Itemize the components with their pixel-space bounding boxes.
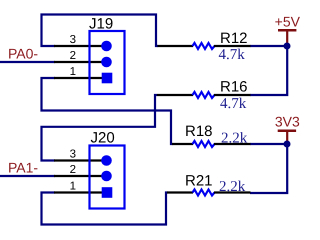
value R12 4.7k — [219, 47, 246, 63]
svg-text:1: 1 — [70, 181, 76, 193]
connector J20 pin 2 contact — [101, 171, 112, 182]
svg-text:+5V: +5V — [275, 14, 301, 30]
label +5V — [275, 14, 301, 30]
value R21 2.2k — [219, 179, 246, 195]
svg-text:R12: R12 — [220, 30, 248, 47]
designator J19 — [89, 16, 113, 33]
resistor R18 body — [193, 141, 215, 147]
pin number J20-1 — [70, 181, 76, 193]
svg-text:2: 2 — [70, 50, 76, 62]
resistor R12 right lead — [214, 45, 251, 47]
svg-text:3: 3 — [70, 149, 76, 161]
connector J19 pin 2 contact — [101, 57, 112, 68]
resistor R18 right lead — [214, 143, 251, 145]
pin number J19-3 — [70, 34, 76, 46]
svg-text:R16: R16 — [220, 79, 248, 96]
wire PA1- net — [0, 175, 55, 177]
svg-text:J20: J20 — [91, 130, 115, 147]
designator R12 — [220, 30, 248, 47]
net label PA0- — [8, 46, 38, 62]
wire PA0- net — [0, 61, 55, 63]
svg-text:1: 1 — [70, 66, 76, 78]
wire R18 right to 3V3 junction — [250, 143, 287, 145]
connector J19 body — [90, 31, 125, 94]
svg-text:R21: R21 — [185, 173, 213, 190]
svg-text:3: 3 — [70, 34, 76, 46]
resistor R18 left lead — [172, 143, 193, 145]
svg-text:4.7k: 4.7k — [220, 96, 247, 112]
power 3V3 stem — [286, 131, 288, 141]
connector J20 body — [90, 146, 125, 209]
label 3V3 — [275, 114, 300, 130]
resistor R16 right lead — [214, 94, 251, 96]
net label PA1- — [8, 160, 38, 176]
wire J19 pin1 loop to R18 — [42, 78, 173, 144]
junction +5V node — [284, 43, 291, 50]
svg-text:4.7k: 4.7k — [219, 47, 246, 63]
wire R12 right to +5V junction — [250, 45, 287, 47]
connector J19 pin 1 contact — [102, 73, 113, 84]
designator J20 — [91, 130, 115, 147]
connector J19 pin 1 lead — [54, 77, 103, 79]
connector J20 pin 3 lead — [54, 159, 103, 161]
designator R18 — [185, 123, 213, 140]
svg-text:PA1-: PA1- — [8, 160, 38, 176]
svg-text:2.2k: 2.2k — [219, 179, 246, 195]
wire J20 pin3 loop to R16 — [42, 95, 158, 161]
connector J19 pin 2 lead — [54, 61, 103, 63]
svg-text:2: 2 — [70, 164, 76, 176]
value R18 2.2k — [221, 130, 248, 146]
resistor R21 left lead — [167, 191, 193, 193]
resistor R16 left lead — [157, 94, 193, 96]
resistor R21 right lead — [214, 191, 251, 193]
resistor R16 body — [193, 92, 215, 98]
wire J20 pin1 bottom loop to R21 — [42, 193, 168, 225]
wire +5V vertical down to R16 — [250, 46, 287, 95]
svg-text:J19: J19 — [89, 16, 113, 33]
svg-text:PA0-: PA0- — [8, 46, 38, 62]
power +5V bar — [278, 29, 296, 32]
resistor R21 body — [193, 190, 215, 196]
pin number J19-1 — [70, 66, 76, 78]
pin number J20-2 — [70, 164, 76, 176]
connector J20 pin 1 contact — [102, 187, 113, 198]
svg-text:R18: R18 — [185, 123, 213, 140]
junction 3V3 node — [284, 141, 291, 148]
designator R16 — [220, 79, 248, 96]
svg-text:3V3: 3V3 — [275, 114, 300, 130]
wire 3V3 vertical down to R21 — [250, 144, 287, 193]
pin number J19-2 — [70, 50, 76, 62]
pin number J20-3 — [70, 149, 76, 161]
value R16 4.7k — [220, 96, 247, 112]
connector J20 pin 1 lead — [54, 191, 103, 193]
power 3V3 bar — [278, 129, 296, 132]
resistor R12 body — [193, 43, 215, 49]
connector J19 pin 3 contact — [101, 41, 112, 52]
connector J20 pin 3 contact — [101, 155, 112, 166]
wire J19 pin3 top loop to R12 — [42, 15, 159, 47]
svg-text:2.2k: 2.2k — [221, 130, 248, 146]
resistor R12 left lead — [158, 45, 194, 47]
designator R21 — [185, 173, 213, 190]
connector J19 pin 3 lead — [54, 45, 103, 47]
power +5V stem — [286, 30, 288, 43]
connector J20 pin 2 lead — [54, 175, 103, 177]
